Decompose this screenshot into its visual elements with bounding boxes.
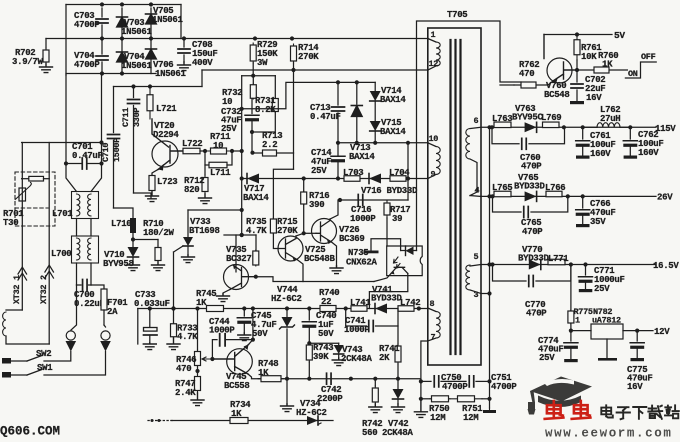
svg-text:0.22uF: 0.22uF: [74, 299, 105, 309]
wire col x241: [241, 76, 243, 235]
node j10: [99, 140, 103, 144]
bar ground sec: [483, 408, 496, 413]
transistor VT20: [152, 119, 183, 171]
diode V704: [117, 40, 153, 73]
ground R733: [167, 338, 180, 350]
node j21: [490, 194, 494, 198]
wire opto led feed: [413, 246, 417, 251]
node j7: [203, 149, 207, 153]
wire V760 emitter: [537, 81, 553, 85]
wire v733 rail: [188, 209, 242, 211]
svg-text:L766: L766: [545, 183, 565, 193]
svg-text:1500P: 1500P: [112, 138, 122, 162]
node j31: [171, 306, 421, 310]
node j14: [240, 176, 244, 237]
capacitor C745: [237, 309, 276, 340]
svg-text:L771: L771: [548, 254, 569, 264]
svg-text:L704: L704: [389, 168, 410, 178]
transistor V735: [224, 245, 256, 290]
transistor V726: [312, 219, 365, 245]
svg-text:39K: 39K: [313, 352, 329, 362]
node j2: [100, 36, 294, 40]
ground R710: [152, 262, 165, 271]
svg-text:BC369: BC369: [339, 234, 365, 244]
svg-text:25V: 25V: [594, 284, 610, 294]
wire row 308: [138, 308, 419, 310]
resistor R714: [291, 43, 320, 63]
svg-text:4700P: 4700P: [491, 382, 517, 392]
capacitor C766: [576, 196, 616, 227]
ground R747: [191, 393, 204, 406]
wire lower rect rail: [66, 73, 156, 75]
capacitor C716: [350, 195, 376, 225]
svg-text:1000P: 1000P: [209, 326, 235, 336]
node j27: [171, 306, 175, 310]
capacitor V704(C): [74, 40, 108, 73]
svg-text:10: 10: [429, 134, 439, 144]
wire row 378: [259, 378, 421, 380]
resistor R750: [421, 396, 450, 423]
svg-text:SW1: SW1: [37, 363, 53, 373]
svg-text:L703: L703: [343, 168, 363, 178]
wire snub top: [242, 82, 376, 108]
inductor L723: [149, 170, 177, 193]
diode V714: [370, 82, 407, 121]
diode V717: [243, 174, 269, 204]
wire mid rail B+: [46, 38, 428, 40]
ground R712: [199, 194, 212, 204]
diode V713: [349, 82, 375, 162]
connector XT32-1: [12, 143, 27, 311]
resistor R742: [362, 379, 382, 438]
lamp HL2: [100, 331, 111, 352]
svg-text:1K: 1K: [258, 368, 269, 378]
svg-text:BC548B: BC548B: [304, 254, 336, 264]
svg-text:L723: L723: [157, 177, 177, 187]
capacitor C762: [623, 127, 663, 158]
diode V703: [117, 8, 153, 37]
svg-text:1000P: 1000P: [344, 325, 370, 335]
node j20: [562, 125, 633, 129]
resistor R760: [577, 51, 618, 73]
capacitor C760: [492, 127, 565, 171]
winding P1 1-12: [428, 30, 440, 70]
wire N782 gnd: [598, 339, 617, 361]
svg-text:L763: L763: [492, 114, 512, 124]
svg-text:2.2: 2.2: [262, 140, 277, 150]
transistor V725: [278, 236, 336, 264]
ground V743: [332, 358, 345, 366]
svg-text:8: 8: [430, 299, 435, 309]
ground pin7: [414, 399, 427, 418]
bar ground C774: [564, 359, 578, 362]
node j1: [100, 2, 153, 6]
ground VT20: [146, 192, 159, 202]
capacitor C708: [178, 39, 218, 69]
diode V765: [514, 173, 546, 201]
svg-text:XT32 2: XT32 2: [39, 275, 49, 304]
dashed box R701: [15, 172, 55, 226]
svg-text:Q606.COM: Q606.COM: [0, 425, 60, 438]
svg-text:1K: 1K: [231, 409, 242, 419]
capacitor C771: [579, 265, 625, 295]
wire c703 col: [101, 8, 103, 36]
node j24: [569, 329, 640, 333]
transformer L700: [51, 236, 99, 263]
transformer L701: [52, 192, 99, 220]
svg-text:160V: 160V: [638, 148, 659, 158]
resistor R740: [318, 288, 339, 312]
svg-text:L741: L741: [350, 298, 371, 308]
capacitor C733: [134, 290, 170, 343]
svg-text:1K: 1K: [196, 298, 207, 308]
svg-text:T705: T705: [447, 10, 467, 20]
capacitor C700: [74, 280, 105, 310]
resistor R712: [184, 165, 208, 195]
node jc733: [148, 306, 152, 310]
capacitor C703: [74, 5, 108, 39]
svg-text:22: 22: [321, 297, 331, 307]
svg-text:L722: L722: [182, 139, 202, 149]
svg-text:25V: 25V: [539, 353, 555, 363]
wire snub box top: [242, 74, 276, 78]
node j3: [100, 71, 124, 75]
svg-text:1N5061: 1N5061: [152, 15, 184, 25]
node j23: [569, 262, 588, 266]
svg-text:V716 BYD33D: V716 BYD33D: [361, 186, 418, 196]
svg-text:BYD33D: BYD33D: [518, 254, 550, 264]
ground C708: [178, 62, 191, 71]
label 115V: [655, 124, 676, 134]
capacitor C765: [493, 196, 568, 237]
wire V735 top: [224, 234, 256, 236]
svg-text:2200P: 2200P: [317, 394, 343, 404]
node j22: [566, 194, 585, 198]
svg-text:8.2K: 8.2K: [255, 105, 276, 115]
wire V745 collector out: [248, 374, 259, 379]
svg-text:4700P: 4700P: [74, 60, 100, 70]
diode V706: [146, 40, 187, 79]
wire R717 to opto: [386, 218, 388, 246]
choke L703: [343, 168, 363, 181]
transformer T705 core box: [428, 28, 481, 365]
wire L700 down: [77, 263, 92, 285]
wire R741 down: [397, 364, 399, 379]
svg-text:T30: T30: [3, 218, 18, 228]
wire v733 gate col: [173, 252, 175, 323]
wire V725 coll to V726 base: [304, 232, 316, 234]
choke L769: [541, 113, 561, 128]
wire C701 down right: [91, 164, 102, 192]
wire right edge of diode block: [180, 5, 182, 39]
wire h8 up: [201, 70, 203, 87]
capacitor C701: [66, 142, 103, 169]
text site name: [601, 405, 679, 419]
node j16: [338, 198, 342, 202]
resistor R713: [262, 131, 282, 156]
resistor R747: [175, 374, 201, 398]
svg-text:BYD33D: BYD33D: [514, 182, 546, 192]
svg-text:25V: 25V: [311, 166, 327, 176]
wire c716 row: [340, 199, 408, 201]
wire V725 collector: [296, 233, 304, 236]
wire V735 emitter top: [235, 235, 237, 265]
wire 16.5V row: [490, 264, 656, 266]
wire V726 emitter: [332, 242, 337, 266]
wire to R713: [250, 132, 262, 155]
node j29: [254, 275, 258, 279]
wire col 102 down: [101, 74, 103, 164]
diode V710: [103, 240, 139, 270]
svg-text:2CK48A: 2CK48A: [341, 354, 373, 364]
svg-text:HZ-6C2: HZ-6C2: [296, 408, 327, 418]
svg-text:BT1698: BT1698: [189, 226, 220, 236]
node j4: [291, 68, 295, 72]
choke L765: [492, 183, 512, 197]
wire V743 top: [307, 341, 339, 345]
capacitor C744: [209, 317, 253, 359]
wire C711 gnd route: [134, 193, 152, 198]
node j30: [302, 231, 306, 235]
wire col x408: [407, 143, 409, 200]
wire pin12 rail: [202, 69, 428, 71]
fuse F701: [91, 285, 128, 325]
wire R713 to R714col: [277, 152, 294, 154]
wire V726 collector: [330, 200, 338, 219]
svg-text:L710: L710: [111, 219, 131, 229]
svg-text:1: 1: [575, 316, 580, 326]
node j6: [131, 84, 152, 88]
svg-text:12M: 12M: [430, 413, 445, 423]
diode V715: [370, 118, 407, 143]
opto phototransistor: [391, 267, 408, 274]
svg-text:115V: 115V: [655, 124, 676, 134]
wire N782 out: [623, 330, 653, 332]
svg-text:BYV95C: BYV95C: [512, 113, 544, 123]
resistor R762: [514, 60, 539, 88]
wire R715 base: [273, 234, 278, 249]
capacitor C750: [421, 373, 469, 392]
svg-text:1N5061: 1N5061: [121, 61, 153, 71]
wire pin5 lead: [0, 0, 1, 1]
resistor R733: [171, 323, 199, 343]
diode V741: [371, 285, 403, 314]
ground R742: [369, 404, 382, 413]
diode V763: [512, 104, 544, 132]
wire c710 to L710: [114, 208, 134, 218]
wire opto collector: [369, 274, 407, 309]
resistor R746 pot: [176, 309, 212, 375]
resistor R735: [246, 217, 267, 266]
svg-text:BAX14: BAX14: [243, 193, 269, 203]
label 26V: [657, 193, 673, 203]
capacitor C740: [302, 309, 336, 344]
wire R735 node right: [256, 277, 374, 282]
node j26: [575, 68, 579, 72]
winding P3 8-7: [428, 299, 440, 343]
capacitor C742: [317, 373, 343, 404]
svg-text:uA7812: uA7812: [592, 316, 621, 326]
capacitor C741: [344, 309, 398, 336]
svg-text:2CK48A: 2CK48A: [382, 428, 414, 437]
resistor R751: [450, 396, 490, 423]
node j18: [419, 379, 423, 401]
wire to switch: [610, 69, 627, 71]
svg-text:D2294: D2294: [153, 130, 179, 140]
capacitor C711: [121, 87, 142, 194]
ground V742: [392, 404, 405, 413]
svg-text:12: 12: [429, 59, 439, 69]
svg-text:470P: 470P: [521, 162, 542, 172]
svg-text:BAX14: BAX14: [380, 95, 406, 105]
wire pin7 down: [421, 341, 428, 399]
svg-text:L711: L711: [210, 168, 231, 178]
resistor R715: [270, 217, 298, 236]
svg-text:9: 9: [431, 170, 436, 180]
lamp HL1: [66, 331, 77, 352]
wire V735 collector: [223, 290, 230, 295]
svg-text:470P: 470P: [522, 227, 543, 237]
svg-text:BYD33D: BYD33D: [371, 294, 403, 304]
svg-text:1N5061: 1N5061: [121, 27, 153, 37]
choke L722: [182, 139, 205, 154]
wire R729 to box: [252, 63, 254, 76]
capacitor C751: [469, 373, 517, 392]
svg-text:0.47uF: 0.47uF: [72, 151, 103, 161]
svg-text:4.7K: 4.7K: [177, 332, 198, 342]
svg-text:2K: 2K: [379, 353, 390, 363]
resistor R732: [222, 76, 256, 107]
svg-text:820: 820: [184, 185, 199, 195]
svg-text:4700P: 4700P: [74, 20, 100, 30]
wire R761 base: [576, 60, 578, 70]
bar ground C702: [570, 101, 584, 104]
svg-text:16V: 16V: [627, 382, 643, 392]
wire 5V rail: [544, 30, 625, 41]
ground mid378: [281, 404, 294, 412]
wire gnd 287: [286, 379, 288, 404]
wire R743 down: [308, 362, 310, 379]
bar ground C771: [579, 289, 593, 292]
wire pin4 lead: [481, 195, 497, 197]
svg-text:400V: 400V: [192, 58, 213, 68]
resistor R775: [568, 265, 593, 326]
resistor R711: [206, 132, 231, 154]
bar ground C761: [576, 156, 590, 159]
wire V745 emitter riser: [249, 309, 253, 345]
svg-text:L769: L769: [541, 113, 561, 123]
capacitor C710: [101, 87, 122, 209]
wire node column left: [65, 5, 67, 76]
svg-text:L721: L721: [156, 104, 177, 114]
choke L766: [545, 183, 565, 197]
winding S2 5-3: [466, 252, 490, 300]
winding S1 6-4: [466, 116, 490, 196]
svg-text:L765: L765: [492, 183, 512, 193]
svg-text:BC327: BC327: [226, 254, 252, 264]
wire R716 down: [303, 205, 305, 233]
resistor R710: [143, 219, 175, 262]
svg-text:12M: 12M: [463, 413, 478, 423]
transformer core bars: [451, 40, 461, 354]
wire 12V row: [571, 324, 591, 331]
capacitor C713: [310, 82, 345, 142]
wire opto anode out: [371, 239, 401, 251]
svg-text:SW2: SW2: [36, 349, 51, 359]
wire R762 left: [500, 84, 514, 86]
capacitor C770: [490, 262, 571, 318]
thyristor V733: [174, 210, 220, 255]
svg-text:1K: 1K: [602, 60, 613, 70]
svg-text:CNX62A: CNX62A: [346, 258, 378, 268]
svg-text:10K: 10K: [581, 52, 597, 62]
optocoupler LED: [401, 246, 414, 256]
svg-text:10: 10: [213, 141, 223, 151]
node j13: [336, 141, 410, 145]
resistor R761: [574, 35, 602, 63]
svg-text:OFF: OFF: [641, 52, 656, 62]
wire sec return: [489, 127, 491, 408]
wire to lamp1: [71, 285, 77, 330]
svg-text:HZ-6C2: HZ-6C2: [271, 294, 302, 304]
diode V705: [146, 6, 184, 36]
svg-text:2A: 2A: [107, 307, 118, 317]
resistor R741: [379, 344, 401, 364]
wire 115V row: [490, 126, 657, 128]
wire pin10 rail: [338, 142, 428, 144]
inductor L710: [111, 218, 136, 239]
ground V735: [217, 294, 230, 302]
wire bottom dotted: [148, 420, 172, 422]
node j25: [575, 32, 579, 36]
bar ground C762: [624, 156, 638, 159]
resistor R717: [384, 200, 410, 224]
svg-text:BC558: BC558: [224, 381, 250, 391]
svg-text:270K: 270K: [298, 52, 319, 62]
diode V770: [518, 245, 550, 270]
node j17: [487, 125, 491, 401]
svg-text:6: 6: [474, 116, 479, 126]
ground C733: [143, 343, 156, 350]
svg-text:3.9/7W: 3.9/7W: [12, 57, 44, 67]
connector XT32-2: [39, 143, 54, 345]
svg-text:35V: 35V: [590, 217, 606, 227]
svg-text:10: 10: [222, 97, 232, 107]
capacitor C714: [311, 143, 345, 179]
opto light arrows: [394, 257, 401, 268]
svg-text:0.47uF: 0.47uF: [310, 112, 341, 122]
capacitor C774: [538, 331, 578, 363]
wire col 66 down: [65, 75, 67, 164]
wire R731 bottom: [252, 112, 275, 132]
wire pin3 lead: [481, 291, 492, 295]
svg-text:50V: 50V: [318, 329, 334, 339]
ground R702: [40, 64, 53, 73]
svg-text:7: 7: [431, 333, 436, 343]
wire left feed: [22, 142, 102, 144]
transistor V760: [544, 35, 577, 101]
node j33: [285, 377, 400, 381]
wire 26V row: [490, 195, 657, 197]
resistor R702: [12, 39, 49, 68]
label 16.5V: [653, 261, 679, 271]
svg-text:560: 560: [362, 428, 377, 437]
svg-text:3: 3: [474, 290, 479, 300]
wire opto emitter: [374, 274, 391, 282]
text site url: [545, 427, 672, 441]
diode V716: [361, 174, 418, 197]
svg-text:BAX14: BAX14: [349, 152, 375, 162]
